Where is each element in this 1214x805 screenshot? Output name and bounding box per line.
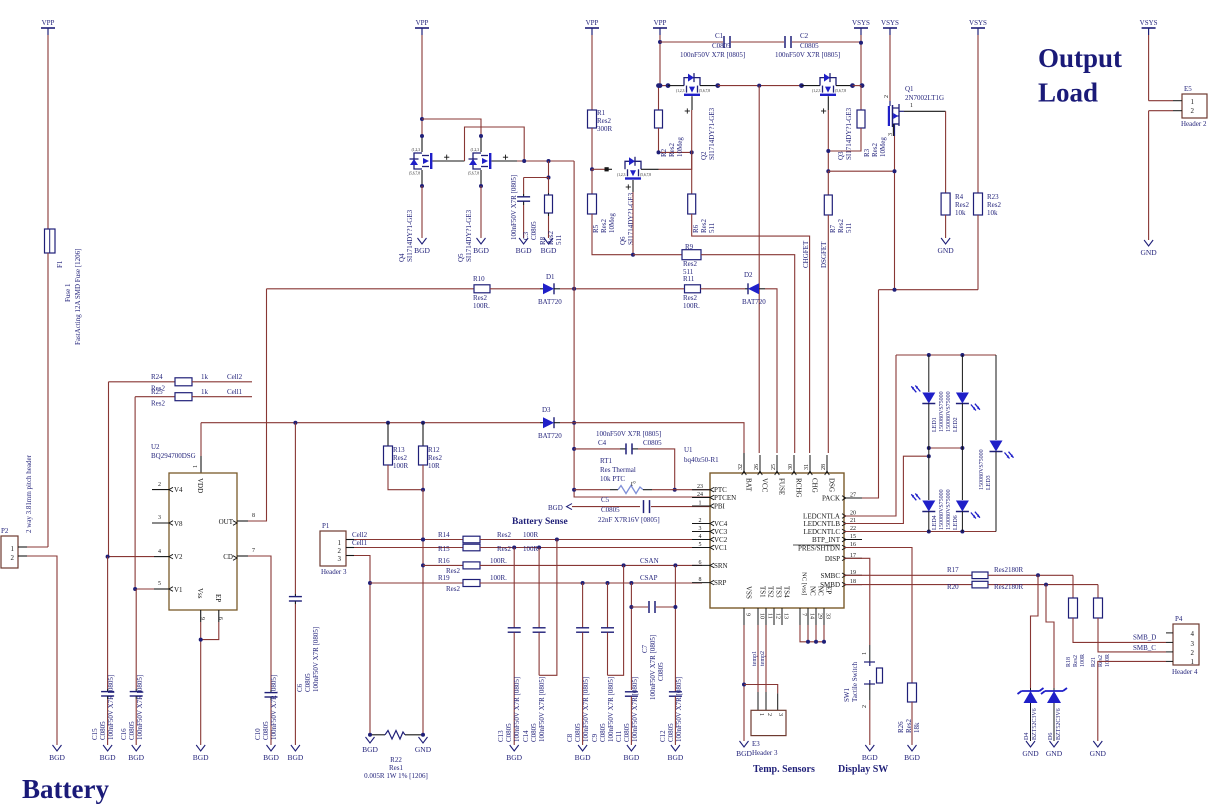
wire — [718, 85, 802, 87]
svg-text:511: 511 — [555, 234, 563, 245]
svg-text:C3: C3 — [522, 231, 530, 240]
svg-text:V2: V2 — [174, 553, 183, 561]
wire — [108, 382, 110, 557]
svg-text:SI1714DY?1-GE3: SI1714DY?1-GE3 — [406, 209, 414, 262]
wire — [27, 556, 57, 745]
capacitor C11 — [625, 691, 638, 693]
svg-text:30: 30 — [788, 464, 794, 470]
svg-text:BGD: BGD — [541, 246, 557, 255]
capacitor C12 — [674, 565, 676, 691]
svg-text:C0805: C0805 — [505, 723, 513, 742]
junction — [657, 150, 661, 154]
capacitor C14 — [538, 548, 540, 628]
capacitor C1 — [723, 36, 725, 48]
ground BGD (C10) — [267, 745, 276, 751]
svg-text:100nF50V X7R [0805]: 100nF50V X7R [0805] — [775, 51, 840, 59]
power VPP rail (C1) — [653, 27, 667, 29]
pin 11 U1 bottom — [765, 608, 767, 625]
pin 2 U1 left — [692, 523, 710, 525]
svg-text:C0805: C0805 — [800, 42, 819, 50]
pin 14 U1 bottom — [807, 608, 809, 625]
wire — [524, 177, 549, 179]
svg-text:Res2: Res2 — [151, 400, 166, 408]
svg-text:EP: EP — [825, 586, 833, 594]
svg-text:8: 8 — [699, 577, 702, 583]
svg-text:E3: E3 — [752, 740, 760, 748]
svg-text:C0805: C0805 — [599, 723, 607, 742]
wire Q2/Q3 drain row — [660, 85, 667, 87]
svg-text:Display SW: Display SW — [838, 764, 888, 775]
LED LED2 — [961, 355, 963, 392]
svg-text:TS1: TS1 — [759, 586, 767, 598]
resistor R18 — [1072, 575, 1074, 598]
wire TS2 — [765, 625, 767, 692]
wire — [1148, 35, 1150, 101]
svg-text:CSAP: CSAP — [640, 574, 658, 582]
svg-text:R2: R2 — [660, 148, 668, 157]
wire gate Q5 — [503, 156, 508, 158]
wire — [421, 186, 423, 238]
junction — [1036, 573, 1040, 577]
svg-text:C0805: C0805 — [712, 42, 731, 50]
wire — [1149, 110, 1173, 112]
svg-text:LED1: LED1 — [932, 417, 938, 432]
diode D3 — [540, 422, 543, 424]
svg-text:28: 28 — [821, 464, 827, 470]
svg-text:Res2: Res2 — [473, 294, 488, 302]
svg-text:BTP_INT: BTP_INT — [812, 536, 841, 544]
ground BGD (C15) — [103, 745, 112, 751]
svg-text:Tactile Switch: Tactile Switch — [851, 661, 859, 702]
resistor R23 — [974, 193, 983, 215]
svg-text:BGD: BGD — [473, 246, 489, 255]
power VSYS rail (R23) — [971, 27, 985, 29]
junction — [479, 134, 483, 138]
svg-text:14: 14 — [809, 613, 815, 619]
ground BGD (Q5) — [477, 238, 486, 244]
svg-text:25: 25 — [771, 464, 777, 470]
svg-text:VPP: VPP — [42, 19, 55, 27]
svg-text:C9: C9 — [591, 733, 599, 742]
capacitor C2 — [784, 36, 786, 48]
svg-text:100R: 100R — [523, 531, 539, 539]
svg-text:100nF50V X7R [0805]: 100nF50V X7R [0805] — [675, 677, 683, 742]
svg-text:4: 4 — [1191, 630, 1195, 638]
pin 8 U1 left — [692, 582, 710, 584]
wire Cell1 row — [354, 547, 463, 549]
svg-text:0.005R 1W 1% [1206]: 0.005R 1W 1% [1206] — [364, 772, 428, 780]
pin 20 U1 right — [844, 515, 862, 517]
svg-text:Res2: Res2 — [668, 143, 676, 158]
svg-text:RCHG: RCHG — [795, 478, 803, 497]
svg-text:C0805: C0805 — [657, 662, 665, 681]
svg-text:R13: R13 — [393, 446, 405, 454]
junction — [386, 421, 390, 425]
svg-text:TS2: TS2 — [767, 586, 775, 598]
svg-text:LEDCNTLB: LEDCNTLB — [803, 520, 840, 528]
pin 6 Vss + pin 9 EP — [200, 610, 202, 622]
junction — [572, 447, 576, 451]
junction — [421, 563, 425, 567]
ground BGD (C13) — [510, 745, 519, 751]
svg-text:temp1: temp1 — [752, 651, 758, 666]
svg-text:C0805: C0805 — [530, 221, 538, 240]
resistor R21 — [1097, 585, 1099, 598]
svg-text:2: 2 — [766, 713, 772, 716]
svg-text:D4: D4 — [1024, 733, 1030, 740]
svg-text:C0805: C0805 — [304, 673, 312, 692]
svg-text:300R: 300R — [597, 125, 613, 133]
switch SW1 — [869, 645, 871, 662]
capacitor C3 — [523, 178, 525, 195]
wire — [560, 423, 744, 453]
svg-text:Q3: Q3 — [837, 151, 845, 160]
svg-text:Res2: Res2 — [905, 719, 913, 734]
svg-text:C15: C15 — [91, 728, 99, 740]
svg-text:CHGFET: CHGFET — [802, 240, 810, 268]
capacitor C5 — [572, 506, 640, 508]
svg-text:BGD: BGD — [904, 753, 920, 762]
zener diode D6 — [1046, 585, 1054, 688]
wire — [27, 546, 48, 548]
svg-text:C0805: C0805 — [623, 723, 631, 742]
svg-text:3: 3 — [699, 526, 702, 532]
pin 27 U1 right — [844, 497, 862, 499]
pin 1 U1 left — [692, 505, 710, 507]
wire P1 pin3 — [354, 556, 370, 735]
svg-text:SI1714DY?1-GE3: SI1714DY?1-GE3 — [845, 107, 853, 160]
pin 24 U1 left — [692, 497, 710, 499]
svg-text:BAT720: BAT720 — [538, 298, 562, 306]
pin 21 U1 right — [844, 523, 862, 525]
svg-text:PACK: PACK — [822, 495, 840, 503]
header P4 — [1173, 624, 1199, 665]
svg-text:100nF50V X7R [0805]: 100nF50V X7R [0805] — [107, 675, 115, 740]
svg-text:Vss: Vss — [196, 588, 204, 599]
svg-text:BGD: BGD — [516, 246, 532, 255]
junction — [572, 287, 576, 291]
wire — [731, 41, 784, 43]
resistor R17 — [972, 572, 988, 579]
svg-text:C0805: C0805 — [99, 721, 107, 740]
pin 5 U1 left — [692, 547, 710, 549]
resistor R19 row CSAP — [370, 582, 463, 584]
pin 19 U1 right — [844, 574, 862, 576]
svg-text:BGD: BGD — [263, 753, 279, 762]
wire — [844, 290, 879, 498]
svg-text:bq40z50-R1: bq40z50-R1 — [684, 456, 719, 464]
svg-text:24: 24 — [697, 492, 703, 498]
svg-text:C2: C2 — [800, 32, 809, 40]
pin 3 U1 left — [692, 531, 710, 533]
svg-text:5: 5 — [699, 542, 702, 548]
svg-text:U1: U1 — [684, 446, 693, 454]
ground BGD (C8) — [578, 745, 587, 751]
svg-text:Res2: Res2 — [393, 454, 408, 462]
svg-text:100nF50V X7R [0805]: 100nF50V X7R [0805] — [596, 430, 661, 438]
svg-text:Header 3: Header 3 — [752, 749, 778, 757]
svg-text:R3: R3 — [863, 148, 871, 157]
wire — [792, 41, 861, 43]
svg-text:Header 3: Header 3 — [321, 568, 347, 576]
power VPP rail (left) — [41, 27, 55, 29]
svg-text:DSGFET: DSGFET — [820, 241, 828, 268]
svg-text:BGD: BGD — [862, 753, 878, 762]
svg-text:2N7002LT1G: 2N7002LT1G — [905, 94, 944, 102]
ground BGD (VSS) — [740, 741, 749, 747]
resistor R12 — [422, 423, 424, 446]
svg-text:R15: R15 — [438, 545, 450, 553]
svg-text:Cell2: Cell2 — [227, 373, 243, 381]
junction — [893, 169, 897, 173]
svg-text:V8: V8 — [174, 520, 183, 528]
svg-text:BGD: BGD — [100, 753, 116, 762]
capacitor C6 — [294, 423, 296, 594]
resistor R26 — [908, 683, 917, 702]
svg-text:100nF50V X7R [0805]: 100nF50V X7R [0805] — [607, 677, 615, 742]
junction — [421, 421, 425, 425]
svg-text:10k PTC: 10k PTC — [600, 475, 625, 483]
svg-text:2: 2 — [699, 518, 702, 524]
wire — [659, 35, 661, 86]
wire — [560, 288, 685, 290]
resistor R16 row CSAN — [423, 564, 463, 566]
ground GND (R22) — [419, 737, 428, 743]
svg-text:R19: R19 — [438, 574, 450, 582]
svg-text:100R: 100R — [1105, 654, 1111, 667]
svg-text:Fuse 1: Fuse 1 — [64, 283, 72, 302]
svg-text:GND: GND — [1046, 749, 1063, 758]
svg-text:BGD: BGD — [287, 753, 303, 762]
pin 31 U1 top — [809, 455, 811, 473]
svg-text:2 way 3.81mm pitch header: 2 way 3.81mm pitch header — [25, 454, 33, 533]
wire — [860, 35, 862, 86]
svg-text:RT1: RT1 — [600, 457, 613, 465]
wire — [422, 119, 481, 138]
svg-text:BGD: BGD — [414, 246, 430, 255]
svg-text:R10: R10 — [473, 275, 485, 283]
junction — [893, 288, 897, 292]
svg-text:10Meg: 10Meg — [676, 137, 684, 157]
wire — [248, 556, 271, 690]
svg-text:CSAN: CSAN — [640, 557, 659, 565]
svg-text:GND: GND — [415, 745, 432, 754]
junction — [293, 421, 297, 425]
pin 22 U1 right — [844, 531, 862, 533]
svg-text:27: 27 — [850, 493, 856, 499]
svg-text:1: 1 — [338, 539, 342, 547]
wire row y289 — [267, 288, 475, 290]
svg-text:P4: P4 — [1175, 615, 1183, 623]
svg-text:Header 4: Header 4 — [1172, 668, 1198, 676]
svg-text:R23: R23 — [987, 193, 999, 201]
svg-text:P1: P1 — [322, 522, 330, 530]
svg-text:Res1: Res1 — [389, 764, 404, 772]
pin 5 V1 — [135, 588, 154, 590]
svg-text:Load: Load — [1038, 78, 1098, 108]
svg-text:SMB_D: SMB_D — [1133, 634, 1156, 642]
pin 12 U1 bottom — [773, 608, 775, 625]
svg-text:R9: R9 — [685, 243, 694, 251]
svg-text:CHG: CHG — [811, 478, 819, 493]
svg-text:3: 3 — [338, 555, 342, 563]
resistor R25 — [135, 396, 175, 398]
wire row Q6 — [592, 168, 606, 170]
resistor R3 — [860, 86, 862, 110]
svg-text:FastActing 12A SMD Fuse [1206]: FastActing 12A SMD Fuse [1206] — [74, 249, 82, 345]
wire LEDCNTLB — [844, 456, 929, 523]
capacitor C15 — [107, 689, 109, 691]
pin 10 U1 bottom — [757, 608, 759, 625]
svg-text:BGD: BGD — [49, 753, 65, 762]
svg-text:100R.: 100R. — [490, 557, 507, 565]
svg-text:150080VS75000: 150080VS75000 — [979, 449, 985, 490]
junction — [537, 546, 541, 550]
ground GND (D6) — [1050, 741, 1059, 747]
resistor R4 — [941, 193, 950, 215]
svg-text:Res Thermal: Res Thermal — [600, 466, 636, 474]
svg-text:10k: 10k — [987, 209, 998, 217]
svg-text:VC3: VC3 — [714, 528, 728, 536]
junction — [666, 83, 671, 88]
svg-text:VSYS: VSYS — [852, 19, 870, 27]
svg-text:1: 1 — [758, 713, 764, 716]
junction — [927, 454, 931, 458]
resistor R10 — [474, 285, 490, 293]
junction — [421, 488, 425, 492]
svg-text:V1: V1 — [174, 586, 183, 594]
svg-text:Res2: Res2 — [987, 201, 1002, 209]
svg-text:Res2: Res2 — [597, 117, 612, 125]
svg-text:R6: R6 — [692, 224, 700, 233]
ground GND (E5) — [1144, 240, 1153, 246]
ground BGD (C16) — [132, 745, 141, 751]
svg-text:GND: GND — [1140, 248, 1157, 257]
svg-text:100nF50V X7R [0805]: 100nF50V X7R [0805] — [538, 677, 546, 742]
pin 30 U1 top — [793, 455, 795, 473]
svg-text:2: 2 — [1191, 649, 1195, 657]
pin 33 U1 bottom — [823, 608, 825, 625]
wire — [548, 161, 550, 178]
svg-text:C0805: C0805 — [667, 723, 675, 742]
svg-text:BGD: BGD — [362, 745, 378, 754]
svg-text:100nF50V X7R [0805]: 100nF50V X7R [0805] — [510, 175, 518, 240]
svg-text:SW1: SW1 — [843, 688, 851, 703]
resistor R1 — [588, 110, 597, 128]
svg-text:FUSE: FUSE — [778, 478, 786, 495]
svg-text:23: 23 — [697, 484, 703, 490]
wire SMBD row — [844, 584, 972, 586]
svg-text:D3: D3 — [542, 406, 551, 414]
svg-text:C11: C11 — [615, 730, 623, 742]
svg-text:PRES/SHTDN: PRES/SHTDN — [798, 545, 840, 553]
resistor R2 — [658, 86, 660, 110]
svg-text:Res2: Res2 — [446, 585, 461, 593]
wire — [945, 111, 947, 193]
junction — [631, 253, 635, 257]
wire row y423 — [201, 422, 540, 424]
svg-text:1: 1 — [1191, 658, 1195, 666]
svg-text:BGD: BGD — [506, 753, 522, 762]
svg-text:VC2: VC2 — [714, 536, 728, 544]
junction — [927, 446, 931, 450]
junction — [826, 169, 830, 173]
wire gate Q4 — [444, 156, 449, 158]
svg-text:6: 6 — [201, 617, 207, 620]
pin 6 U1 left — [692, 564, 710, 566]
svg-text:C0805: C0805 — [643, 439, 662, 447]
wire PACK sense — [879, 289, 979, 291]
svg-text:Header 2: Header 2 — [1181, 120, 1207, 128]
pin 28 U1 top — [826, 455, 828, 473]
junction — [927, 353, 931, 357]
pin stubs P4 — [1166, 632, 1173, 634]
capacitor C9 — [607, 583, 609, 628]
diode D1 — [540, 288, 543, 290]
power VSYS rail (Q1 gate) — [883, 27, 897, 29]
thermistor RT1 — [574, 489, 610, 491]
svg-text:GND: GND — [1090, 749, 1107, 758]
svg-text:511: 511 — [845, 222, 853, 233]
svg-text:Res2: Res2 — [497, 531, 512, 539]
pin 15 U1 right — [844, 539, 862, 541]
svg-text:Res2180R: Res2180R — [994, 566, 1024, 574]
wire — [480, 186, 482, 238]
svg-text:BGD: BGD — [193, 753, 209, 762]
svg-text:C1: C1 — [715, 32, 724, 40]
capacitor C10 — [270, 690, 272, 692]
svg-text:1k: 1k — [201, 373, 209, 381]
svg-text:C7: C7 — [641, 644, 649, 653]
fuse F1 — [45, 229, 56, 253]
junction — [658, 40, 662, 44]
wire — [422, 490, 424, 735]
junction — [581, 581, 585, 585]
wire — [765, 289, 777, 453]
svg-text:SI1714DY?1-GE3: SI1714DY?1-GE3 — [465, 209, 473, 262]
svg-text:1: 1 — [1191, 98, 1195, 106]
wire — [1149, 100, 1173, 102]
svg-text:OUT: OUT — [219, 518, 234, 526]
svg-text:1: 1 — [862, 652, 868, 655]
wire gate Q3 — [821, 110, 826, 112]
svg-text:R4: R4 — [955, 193, 964, 201]
wire VSS — [743, 625, 745, 741]
svg-text:BQ294700DSG: BQ294700DSG — [151, 452, 196, 460]
pin 32 U1 top — [743, 455, 745, 473]
ground BGD (C3) — [519, 238, 528, 244]
svg-text:R18: R18 — [1066, 657, 1072, 667]
junction — [368, 581, 372, 585]
svg-text:C13: C13 — [497, 730, 505, 742]
wire BAT sense vertical — [574, 161, 710, 497]
svg-text:100nF50V X7R [0805]: 100nF50V X7R [0805] — [582, 677, 590, 742]
junction — [547, 176, 551, 180]
resistor R8 — [548, 178, 550, 194]
resistor R4b gate pulldown — [691, 169, 693, 194]
svg-text:GND: GND — [937, 246, 954, 255]
svg-text:Res2: Res2 — [700, 219, 708, 234]
svg-text:15: 15 — [850, 534, 856, 540]
svg-text:E5: E5 — [1184, 85, 1192, 93]
junction — [826, 149, 830, 153]
LED LED4 — [928, 448, 930, 500]
ground BGD (P2) — [53, 745, 62, 751]
junction — [133, 587, 137, 591]
junction — [512, 546, 516, 550]
wire — [659, 152, 692, 169]
power VPP rail (Q4) — [415, 27, 429, 29]
